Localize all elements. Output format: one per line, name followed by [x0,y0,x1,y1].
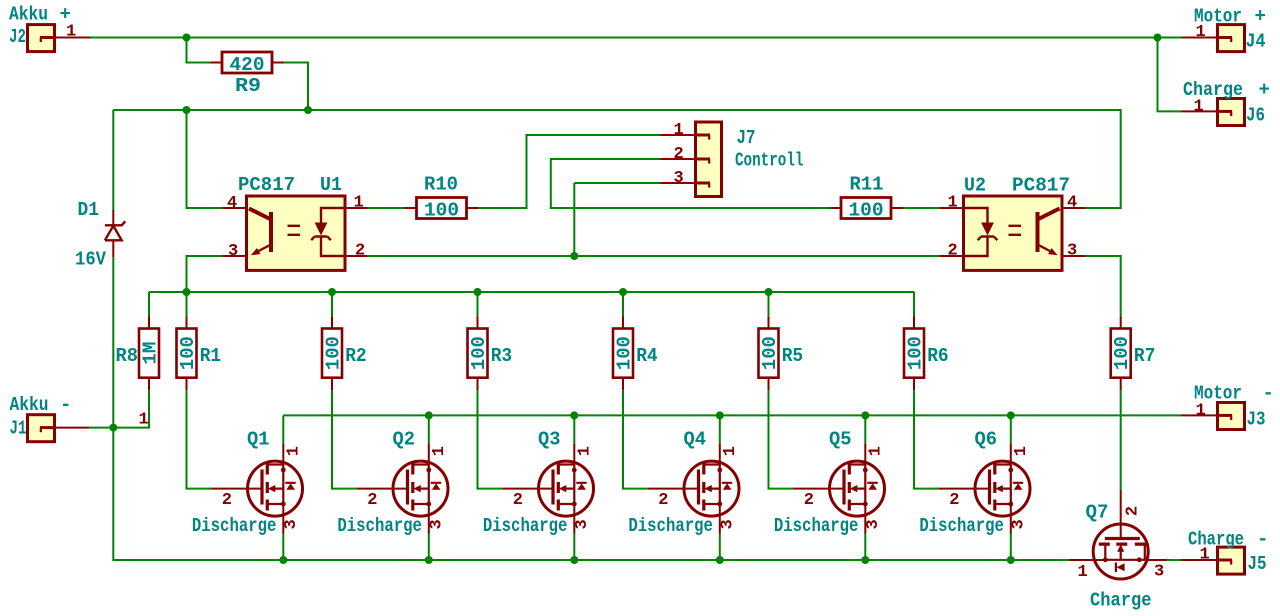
svg-text:R10: R10 [424,174,458,196]
svg-text:1: 1 [66,23,76,42]
svg-text:2: 2 [355,242,365,261]
svg-text:1: 1 [139,411,149,430]
svg-text:J4: J4 [1246,31,1266,53]
svg-text:1: 1 [1200,546,1210,565]
svg-text:J3: J3 [1247,409,1266,431]
svg-text:100: 100 [849,199,884,221]
svg-text:4: 4 [1067,194,1077,213]
svg-text:R5: R5 [782,345,804,367]
svg-text:PC817: PC817 [238,174,295,196]
svg-text:Akku: Akku [10,394,49,416]
svg-text:1: 1 [354,194,364,213]
svg-text:J5: J5 [1248,553,1267,575]
svg-text:100: 100 [1111,336,1133,370]
svg-text:Charge: Charge [1188,529,1244,551]
svg-text:Q1: Q1 [247,429,270,451]
svg-text:R3: R3 [491,345,513,367]
svg-text:-: - [60,394,71,416]
svg-text:R2: R2 [345,345,367,367]
svg-text:1: 1 [1196,402,1206,421]
svg-text:1: 1 [1196,23,1206,42]
svg-text:1M: 1M [140,342,162,365]
svg-text:R6: R6 [927,345,949,367]
svg-text:Charge: Charge [1090,590,1152,612]
svg-text:R8: R8 [116,345,139,367]
svg-text:R9: R9 [235,75,261,97]
svg-text:420: 420 [230,54,265,76]
svg-text:4: 4 [227,194,237,213]
svg-text:2: 2 [1123,506,1142,516]
svg-text:1: 1 [674,121,684,140]
svg-text:Controll: Controll [735,150,804,172]
svg-text:1: 1 [1194,98,1204,117]
svg-text:R11: R11 [850,174,884,196]
svg-text:Charge: Charge [1183,79,1243,101]
svg-text:Q4: Q4 [684,429,707,451]
svg-text:Q2: Q2 [393,429,416,451]
svg-text:R4: R4 [636,345,658,367]
svg-text:16V: 16V [75,249,107,271]
svg-text:+: + [1255,6,1266,28]
svg-text:1: 1 [948,194,958,213]
svg-text:Q7: Q7 [1086,502,1109,524]
svg-text:3: 3 [228,242,238,261]
svg-text:U1: U1 [320,174,342,196]
svg-text:U2: U2 [964,175,986,197]
svg-text:PC817: PC817 [1012,175,1070,197]
svg-text:J2: J2 [9,26,26,48]
svg-text:3: 3 [674,169,684,188]
svg-text:1: 1 [1078,563,1088,582]
svg-text:R7: R7 [1134,345,1156,367]
svg-text:-: - [1257,529,1268,551]
svg-text:100: 100 [424,199,459,221]
svg-text:3: 3 [1154,563,1164,582]
svg-text:2: 2 [674,145,684,164]
svg-text:-: - [1263,383,1274,405]
svg-text:J7: J7 [737,127,756,149]
svg-text:Q3: Q3 [538,429,561,451]
svg-text:R1: R1 [200,345,222,367]
svg-text:Q5: Q5 [829,429,852,451]
svg-text:Q6: Q6 [975,429,998,451]
svg-text:Akku: Akku [9,4,48,26]
svg-text:D1: D1 [78,199,100,221]
svg-text:J6: J6 [1246,105,1265,127]
svg-text:2: 2 [948,242,958,261]
svg-text:3: 3 [1067,242,1077,261]
svg-text:J1: J1 [10,418,27,440]
svg-text:+: + [1259,79,1270,101]
